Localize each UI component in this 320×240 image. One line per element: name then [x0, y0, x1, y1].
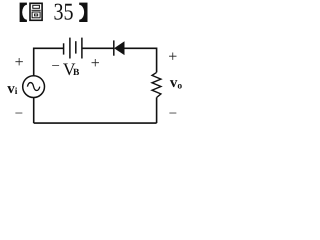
- wire from resistor bottom to bottom-right corner: [156, 98, 158, 124]
- wire from battery positive plate to diode cathode: [82, 47, 114, 49]
- svg-text:VB: VB: [63, 59, 80, 79]
- diode D (cathode bar left, triangle pointing left): [114, 40, 124, 55]
- wire from diode anode to top-right corner down to resistor top: [124, 48, 156, 72]
- wire from bottom-left corner up to AC source bottom: [33, 98, 35, 124]
- svg-text:+: +: [15, 54, 24, 71]
- svg-text:−: −: [169, 106, 177, 122]
- svg-text:+: +: [91, 55, 100, 72]
- AC source vi (circle with sine): [23, 76, 45, 98]
- battery VB: [64, 38, 82, 59]
- figure caption 【圖 35】: [20, 0, 88, 25]
- svg-text:−: −: [15, 106, 23, 122]
- svg-text:vi: vi: [7, 81, 18, 97]
- resistor (load): [152, 72, 161, 97]
- svg-text:35: 35: [54, 0, 74, 25]
- svg-text:vo: vo: [170, 75, 183, 91]
- wire from AC source top to top-left corner to battery negative plate: [34, 48, 64, 75]
- bottom wire: [34, 122, 157, 124]
- svg-text:+: +: [168, 48, 177, 65]
- svg-text:−: −: [51, 58, 59, 74]
